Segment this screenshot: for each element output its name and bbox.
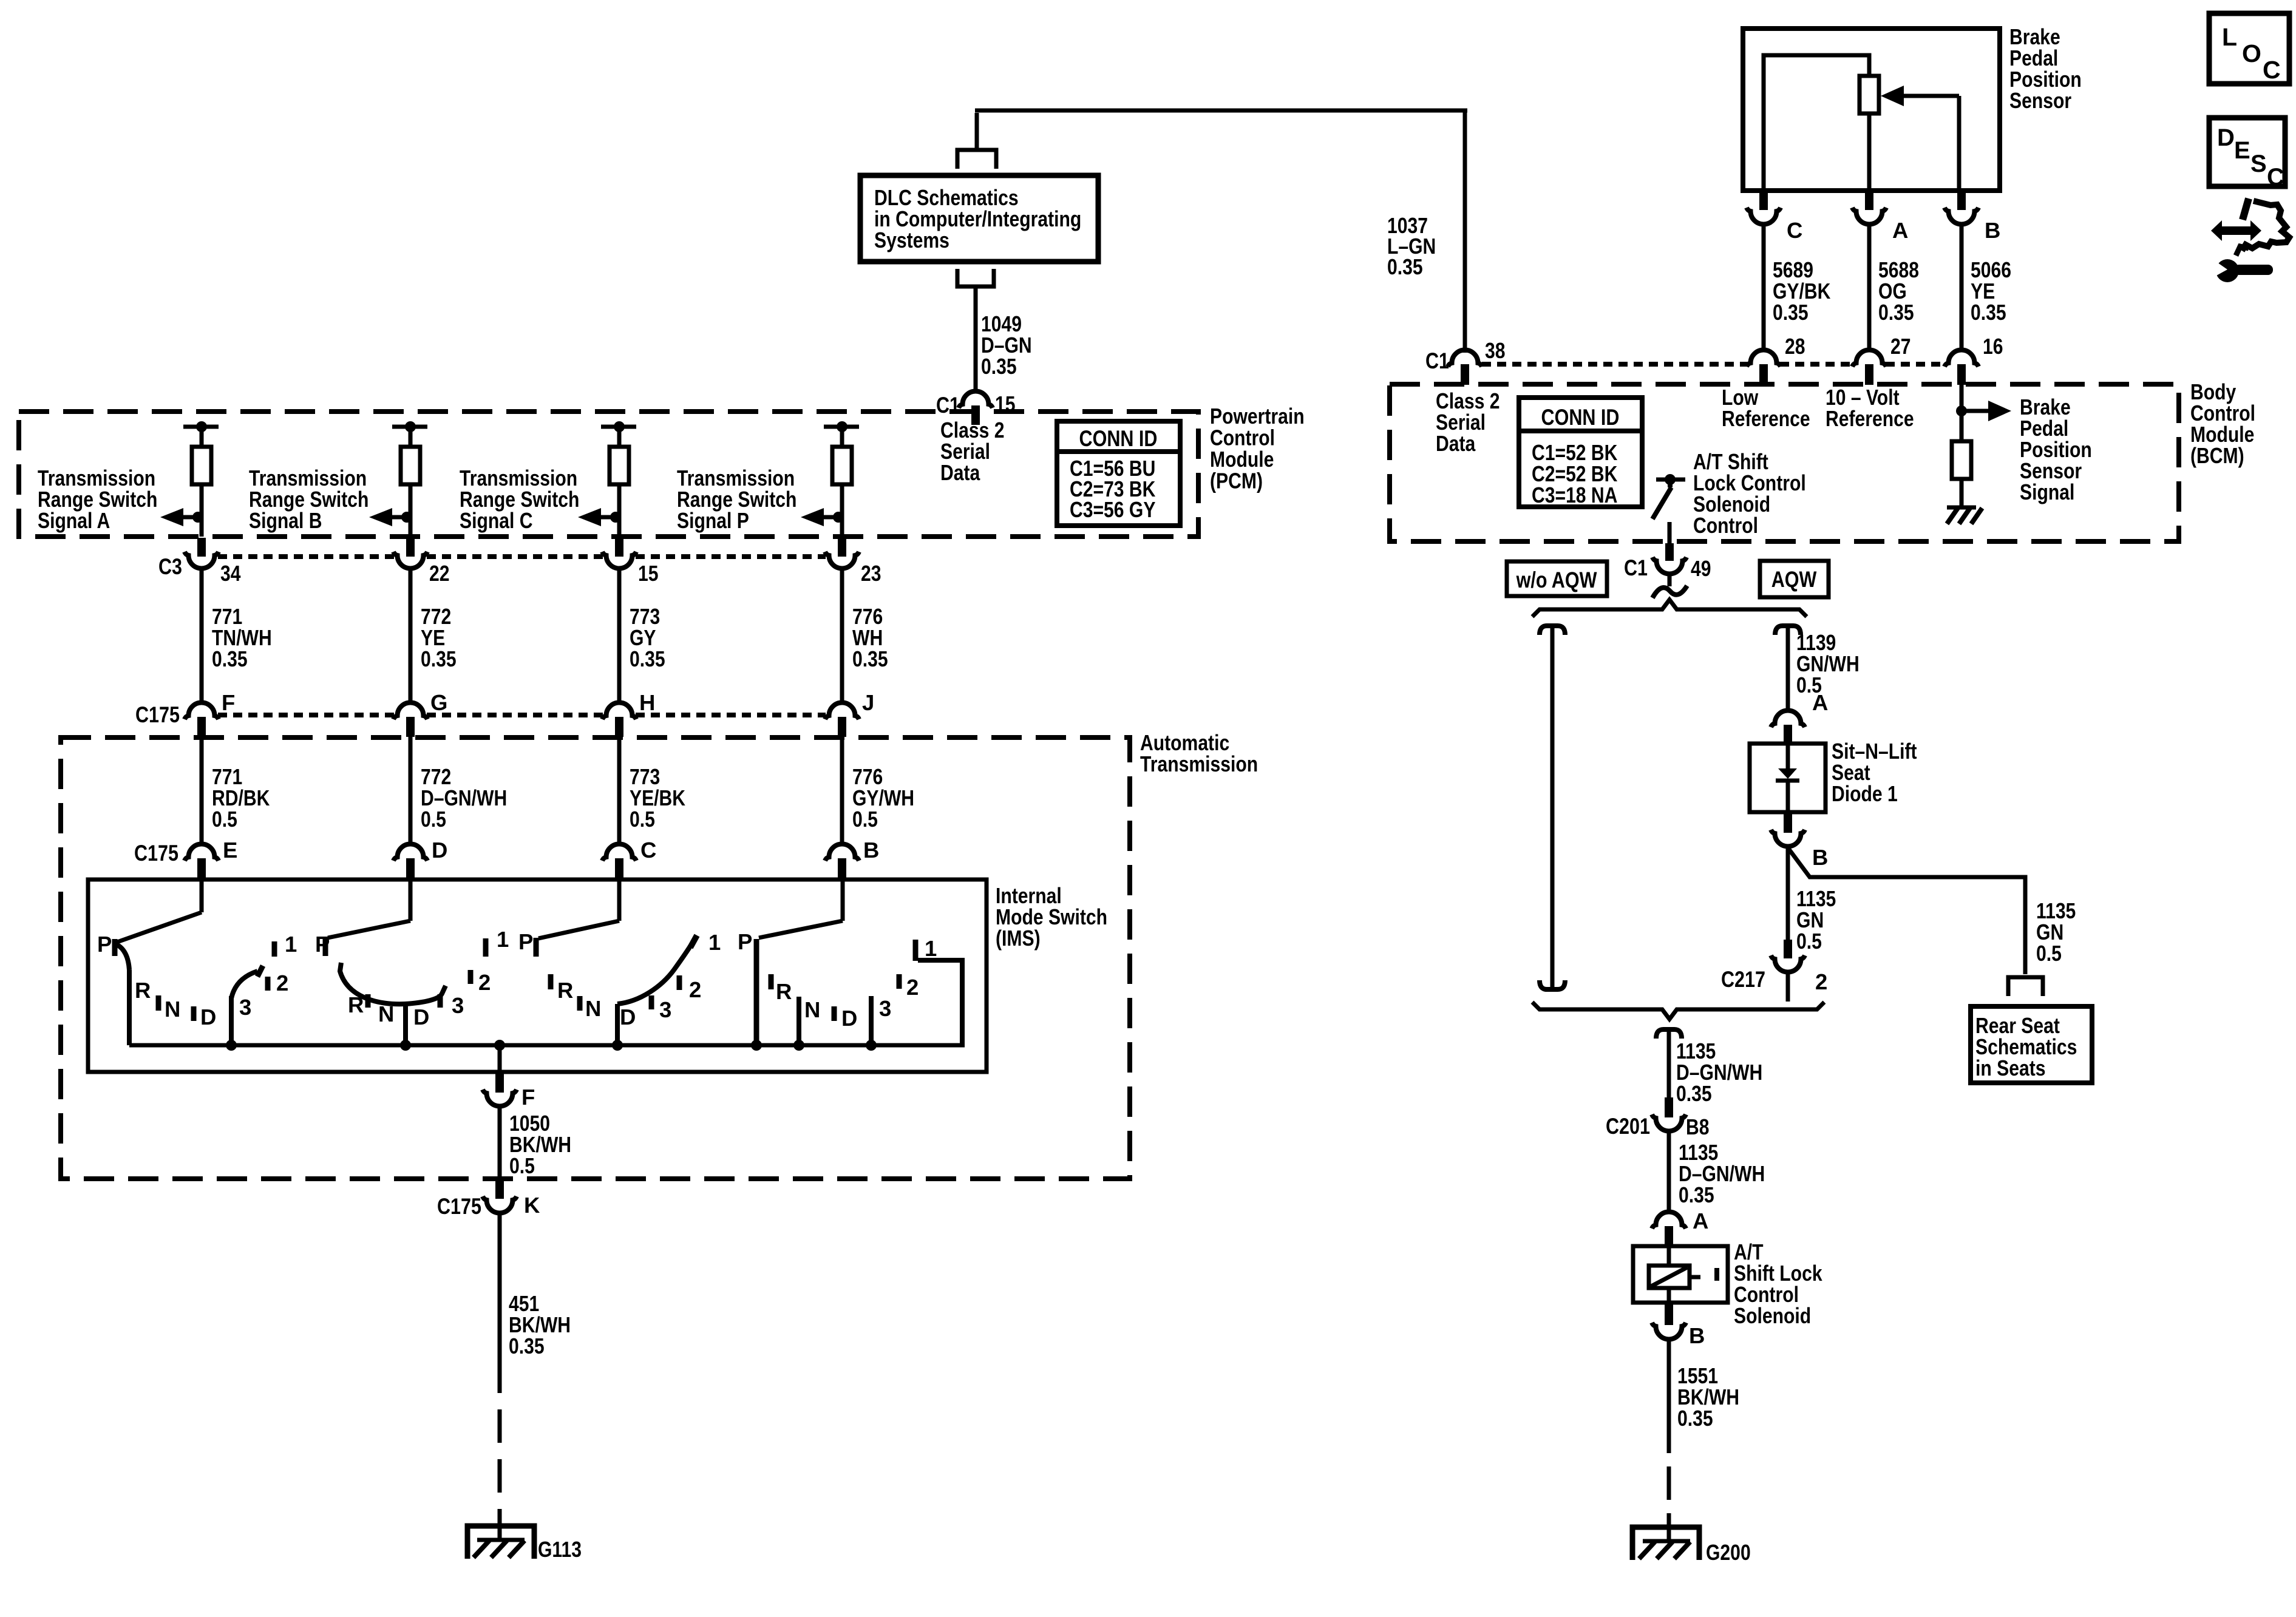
connector BCM pin 28 <box>1747 350 1781 367</box>
signal arrow Transmission Range Switch Signal A <box>192 512 203 523</box>
resistor R-B (PCM internal pull-up) <box>401 447 420 484</box>
box CONN ID (PCM) <box>1057 421 1180 526</box>
svg-text:B: B <box>1689 1323 1705 1348</box>
connector C3 terminal wire B <box>406 538 415 557</box>
wire D into IMS gang2 <box>409 880 413 921</box>
box DLC Schematics reference <box>860 175 1098 262</box>
wire circuit below C175 pin F <box>200 737 204 845</box>
svg-text:N: N <box>378 1002 394 1026</box>
wire C resistor to signal tap <box>617 484 622 537</box>
connector BCM pin 16 <box>1944 350 1978 367</box>
wire BPP element low <box>1867 114 1872 191</box>
wire circuit 5688 to BCM <box>1867 224 1872 352</box>
contact 3 gang3 <box>649 995 654 1009</box>
connector C1 pin 38 (BCM) <box>1448 350 1482 367</box>
svg-text:0.35: 0.35 <box>1677 1406 1713 1431</box>
connector BCM pin 27 <box>1852 350 1886 367</box>
svg-text:F: F <box>222 690 235 715</box>
svg-text:38: 38 <box>1485 338 1506 363</box>
wire into solenoid <box>1667 1246 1671 1266</box>
connector C175 pin G <box>393 703 427 720</box>
svg-text:Signal: Signal <box>2020 480 2074 504</box>
ground G113 <box>467 1526 534 1559</box>
splice option squiggle <box>1652 586 1687 598</box>
wire A to resistor <box>200 427 204 447</box>
contact D gang1 <box>191 1006 197 1021</box>
svg-text:(PCM): (PCM) <box>1210 469 1263 493</box>
contact 2 gang3 <box>677 975 682 990</box>
svg-text:D: D <box>413 1005 429 1029</box>
contact 2 gang4 <box>897 974 902 989</box>
svg-text:Data: Data <box>940 460 980 485</box>
off-page bracket below DLC box <box>957 269 994 286</box>
wire resistor to internal ground <box>1960 479 1964 507</box>
svg-text:0.5: 0.5 <box>509 1153 535 1178</box>
connector C175 pin F <box>185 703 219 720</box>
svg-text:15: 15 <box>638 561 659 586</box>
wire circuit below C3 pin 15 <box>617 568 622 703</box>
wire A resistor to signal tap <box>200 484 204 537</box>
svg-text:A: A <box>1892 218 1908 243</box>
wire 1135 D-GN/WH lower <box>1667 1131 1671 1213</box>
svg-text:0.35: 0.35 <box>1679 1182 1714 1207</box>
ground G200 <box>1632 1527 1699 1560</box>
wire 1135 D-GN/WH upper <box>1667 1029 1671 1097</box>
connector C3 terminal wire P <box>838 538 846 557</box>
svg-text:P: P <box>97 932 112 957</box>
svg-text:Diode 1: Diode 1 <box>1832 781 1898 806</box>
svg-text:P: P <box>518 929 533 954</box>
svg-text:A: A <box>1693 1209 1708 1233</box>
wire 1050 BK/WH <box>498 1106 502 1180</box>
svg-text:15: 15 <box>995 392 1016 416</box>
svg-text:J: J <box>862 690 874 715</box>
wire circuit 5689 to BCM <box>1762 224 1766 352</box>
contact P gang2 <box>323 937 328 956</box>
svg-text:w/o AQW: w/o AQW <box>1516 568 1597 592</box>
svg-text:1: 1 <box>925 936 937 961</box>
connector C3 terminal wire C <box>615 538 623 557</box>
connector C201 pin B8 <box>1665 1097 1673 1117</box>
node: PCM pull-up tap wire C <box>614 421 625 432</box>
svg-text:in Seats: in Seats <box>1975 1056 2046 1080</box>
svg-text:23: 23 <box>861 561 881 586</box>
box Rear Seat Schematics in Seats <box>1971 1006 2092 1083</box>
svg-text:B: B <box>863 838 879 863</box>
wire P to resistor <box>840 427 844 447</box>
svg-text:27: 27 <box>1890 334 1911 359</box>
wire circuit 5066 to BCM <box>1960 224 1964 352</box>
wire B to resistor <box>409 427 413 447</box>
wire circuit below C175 pin J <box>840 737 844 845</box>
svg-text:Reference: Reference <box>1826 406 1914 431</box>
wire 451 BK/WH solid <box>498 1213 502 1360</box>
resistor R-P (PCM internal pull-up) <box>832 447 852 484</box>
svg-text:G: G <box>430 690 447 715</box>
svg-text:Transmission: Transmission <box>1140 751 1258 776</box>
wire B resistor to signal tap <box>409 484 413 537</box>
svg-text:16: 16 <box>1983 334 2003 359</box>
wire 451 BK/WH dashed to ground <box>498 1360 502 1393</box>
connector line BCM C1 (dotted) <box>1482 362 1747 367</box>
svg-text:G113: G113 <box>538 1537 582 1562</box>
svg-text:C175: C175 <box>134 841 178 866</box>
signal arrow Transmission Range Switch Signal C <box>610 512 621 523</box>
svg-text:C1: C1 <box>1624 555 1648 580</box>
svg-text:Control: Control <box>1693 513 1758 538</box>
connector C1 pin 15 (PCM) <box>959 392 993 408</box>
wire C into IMS gang3 <box>617 880 622 921</box>
wire diode to box bottom <box>1786 781 1790 812</box>
resistor R-C (PCM internal pull-up) <box>610 447 629 484</box>
svg-text:0.35: 0.35 <box>1676 1081 1712 1106</box>
wire coil to box bottom <box>1667 1288 1671 1303</box>
svg-text:3: 3 <box>659 997 671 1022</box>
svg-text:Signal B: Signal B <box>249 508 322 533</box>
contact R gang2 <box>365 994 371 1008</box>
diode D1 <box>1778 768 1797 779</box>
svg-text:2: 2 <box>1815 969 1827 994</box>
connector line C175 (dotted) <box>218 713 394 717</box>
connector C1 pin 49 <box>1665 543 1674 561</box>
connector BPP pin A <box>1865 191 1873 210</box>
contact 3 line to rail gang1 <box>229 996 234 1045</box>
svg-text:C: C <box>1787 218 1802 243</box>
svg-text:Systems: Systems <box>874 228 949 253</box>
wiper bowl gang2 R to 3 <box>340 963 446 1004</box>
svg-text:0.35: 0.35 <box>852 646 888 671</box>
svg-text:D: D <box>200 1005 216 1029</box>
module box: Automatic Transmission, dashed <box>61 737 1130 1179</box>
svg-text:1: 1 <box>285 932 297 957</box>
connector diode pin B <box>1784 812 1792 833</box>
connector BPP pin B <box>1957 191 1966 210</box>
contact 3 gang2 <box>438 994 443 1008</box>
solenoid coil tap <box>1690 1275 1700 1280</box>
contact N gang3 <box>577 996 583 1011</box>
svg-text:2: 2 <box>906 975 919 1000</box>
contact R gang4 <box>769 974 774 989</box>
svg-text:0.5: 0.5 <box>2036 941 2062 966</box>
node: PCM pull-up tap wire P <box>837 421 847 432</box>
svg-text:CONN ID: CONN ID <box>1079 426 1158 451</box>
ground BCM internal <box>1947 506 1976 510</box>
svg-text:(IMS): (IMS) <box>996 926 1041 951</box>
svg-text:0.35: 0.35 <box>212 646 248 671</box>
svg-text:28: 28 <box>1785 334 1805 359</box>
svg-text:22: 22 <box>429 561 450 586</box>
svg-text:3: 3 <box>452 993 464 1018</box>
svg-text:0.5: 0.5 <box>630 807 655 832</box>
contact 2 gang2 <box>468 970 474 984</box>
connector C3 terminal wire A <box>197 538 206 557</box>
svg-text:0.35: 0.35 <box>1878 300 1914 325</box>
contact 1 gang2 <box>483 938 489 957</box>
svg-text:C3: C3 <box>158 554 182 579</box>
connector C175 pin K <box>495 1180 504 1199</box>
contact 2 gang1 <box>265 977 271 991</box>
contact P line to rail gang4 <box>754 939 759 1045</box>
resistor R-A (PCM internal pull-up) <box>192 447 211 484</box>
svg-text:Sensor: Sensor <box>2009 88 2071 113</box>
module box: Powertrain Control Module (PCM), dashed <box>19 412 1198 537</box>
svg-text:CONN ID: CONN ID <box>1541 405 1620 430</box>
svg-text:C1: C1 <box>1425 348 1449 373</box>
svg-text:3: 3 <box>879 996 891 1021</box>
svg-text:0.35: 0.35 <box>981 354 1017 379</box>
svg-text:Signal C: Signal C <box>460 508 533 533</box>
wiper arm gang1 P to rail <box>117 944 129 970</box>
wiper arc gang3 D to 1 <box>617 940 694 1004</box>
solenoid coil <box>1649 1266 1690 1288</box>
wire circuit below C3 pin 23 <box>840 568 844 703</box>
svg-text:B: B <box>1985 218 2000 243</box>
svg-text:Signal A: Signal A <box>38 508 110 533</box>
contact N line to rail gang4 <box>796 997 801 1045</box>
wire rail tap to F <box>494 1040 505 1051</box>
svg-text:0.35: 0.35 <box>421 646 457 671</box>
contact 3 line to rail gang4 <box>869 996 874 1045</box>
potentiometer wiper arrow <box>1881 86 1904 106</box>
module box: Body Control Module (BCM), dashed <box>1390 384 2179 541</box>
svg-text:E: E <box>223 838 237 863</box>
svg-text:Reference: Reference <box>1722 406 1810 431</box>
svg-text:R: R <box>557 978 573 1003</box>
contact D line to rail gang3 <box>615 1004 620 1045</box>
wire circuit below C175 pin H <box>617 737 622 845</box>
svg-text:0.35: 0.35 <box>1971 300 2006 325</box>
wire branch w/o AQW top cap <box>1540 626 1565 635</box>
svg-text:AQW: AQW <box>1771 567 1817 592</box>
svg-text:Data: Data <box>1436 431 1476 456</box>
svg-text:C: C <box>2263 56 2281 84</box>
connector diode pin A <box>1771 711 1805 728</box>
svg-text:2: 2 <box>478 970 491 995</box>
svg-text:D: D <box>841 1006 857 1031</box>
wire pin16 to BPP signal node <box>1960 385 1964 441</box>
svg-text:2: 2 <box>689 977 701 1002</box>
wire branch AQW <box>1786 626 1790 711</box>
signal arrow Transmission Range Switch Signal P <box>833 512 844 523</box>
node: PCM pull-up tap wire A <box>196 421 207 432</box>
svg-text:P: P <box>315 932 330 957</box>
wire into diode <box>1786 744 1790 770</box>
svg-text:C217: C217 <box>1721 967 1765 992</box>
legend box LOC <box>2209 13 2289 84</box>
svg-text:C3=18 NA: C3=18 NA <box>1532 483 1617 507</box>
svg-text:H: H <box>639 690 655 715</box>
wire branch AQW top cap <box>1775 626 1801 635</box>
contact P gang3 <box>534 938 539 957</box>
connector IMS pin F <box>495 1073 504 1093</box>
wire circuit below C3 pin 22 <box>409 568 413 703</box>
wire branch to rear seat <box>1788 849 2025 974</box>
signal arrow Transmission Range Switch Signal B <box>401 512 412 523</box>
contact 1 gang4 <box>913 940 919 961</box>
contact D gang4 <box>832 1006 837 1021</box>
wire C217 to lower brace <box>1786 972 1790 1002</box>
off-page bracket above DLC box <box>957 150 996 169</box>
svg-text:0.35: 0.35 <box>1387 254 1423 279</box>
box AQW <box>1760 561 1829 597</box>
svg-text:N: N <box>804 997 820 1022</box>
svg-text:0.35: 0.35 <box>509 1334 545 1358</box>
wire 1551 BK/WH dashed to ground <box>1667 1466 1671 1500</box>
svg-text:N: N <box>585 996 601 1021</box>
svg-text:C175: C175 <box>135 702 180 727</box>
svg-text:P: P <box>738 929 752 954</box>
svg-text:C175: C175 <box>437 1194 481 1219</box>
svg-text:O: O <box>2242 39 2261 67</box>
connector C217 pin 2 <box>1784 940 1792 958</box>
box A/T Shift Lock Control Solenoid <box>1633 1246 1728 1303</box>
svg-text:34: 34 <box>220 561 241 586</box>
svg-text:G200: G200 <box>1706 1540 1751 1565</box>
connector line C3 (dotted) <box>218 554 394 559</box>
svg-text:3: 3 <box>239 995 251 1020</box>
wire 1551 BK/WH solid <box>1667 1339 1671 1453</box>
svg-text:0.5: 0.5 <box>421 807 446 832</box>
svg-text:E: E <box>2234 137 2250 164</box>
svg-text:D: D <box>620 1005 636 1029</box>
contact R gang3 <box>548 974 554 989</box>
connector C175 pin C <box>602 844 636 861</box>
wire E into IMS gang1 <box>200 880 204 912</box>
connector BPP pin C <box>1759 191 1768 210</box>
module box: Brake Pedal Position Sensor <box>1743 29 2000 191</box>
contact P gang1 <box>112 939 118 956</box>
node: PCM pull-up tap wire B <box>405 421 416 432</box>
signal arrow Brake Pedal Position Sensor Signal <box>1961 409 1995 413</box>
svg-text:K: K <box>524 1193 540 1218</box>
svg-text:C: C <box>2267 164 2284 191</box>
connector solenoid pin A <box>1652 1212 1686 1229</box>
contact 1 gang1 <box>272 941 277 957</box>
wire IMS common rail <box>129 1043 965 1048</box>
wire P resistor to signal tap <box>840 484 844 537</box>
svg-text:C: C <box>640 838 656 863</box>
connector C175 pin H <box>602 703 636 720</box>
wire B into IMS gang4 <box>841 880 845 921</box>
svg-text:R: R <box>135 978 151 1003</box>
module box: Internal Mode Switch (IMS) <box>88 880 987 1072</box>
box CONN ID (BCM) <box>1519 398 1642 507</box>
wire branch w/o AQW <box>1550 626 1555 989</box>
svg-text:D: D <box>2217 124 2235 151</box>
wire 1049 D-GN from DLC bracket <box>974 286 978 392</box>
wire merge cap below brace <box>1656 1029 1682 1039</box>
svg-text:0.5: 0.5 <box>852 807 878 832</box>
wire class 2 drop to BCM C1-38 <box>1463 110 1467 353</box>
wire circuit below C175 pin G <box>409 737 413 845</box>
svg-text:1: 1 <box>497 927 509 952</box>
legend icon replace/repair <box>2211 220 2261 241</box>
connector C175 pin E <box>185 844 219 861</box>
wire BPP low side <box>1764 55 1869 191</box>
off-page bracket rear seat <box>2008 977 2043 996</box>
svg-text:C201: C201 <box>1606 1114 1650 1139</box>
svg-text:A: A <box>1812 690 1828 715</box>
wire contact1 to rail gang4 (L path) <box>918 960 962 1045</box>
svg-text:0.35: 0.35 <box>1773 300 1809 325</box>
wire below diode B <box>1786 846 1790 940</box>
svg-text:0.5: 0.5 <box>1796 929 1822 954</box>
svg-text:1: 1 <box>708 930 721 955</box>
wire below C1-49 <box>1668 574 1672 586</box>
wire class 2 serial data horizontal run <box>975 109 1467 113</box>
svg-text:B8: B8 <box>1686 1114 1710 1139</box>
svg-text:R: R <box>776 979 792 1004</box>
option brace upper <box>1532 600 1807 617</box>
contact N gang1 <box>156 995 161 1011</box>
svg-text:L: L <box>2222 23 2237 51</box>
svg-text:(BCM): (BCM) <box>2190 443 2244 468</box>
svg-text:Signal P: Signal P <box>677 508 749 533</box>
svg-text:F: F <box>521 1085 535 1110</box>
svg-text:S: S <box>2250 151 2267 177</box>
svg-text:C1: C1 <box>936 393 960 418</box>
switch A/T Shift Lock Control Solenoid Control (BCM driver) <box>1665 474 1676 485</box>
potentiometer BPP element <box>1860 76 1879 114</box>
resistor BCM pulldown <box>1952 441 1971 479</box>
box Sit-N-Lift Seat Diode 1 <box>1750 744 1826 812</box>
connector C175 pin B <box>825 844 859 861</box>
connector solenoid pin B <box>1665 1303 1673 1325</box>
wire C to resistor <box>617 427 622 447</box>
contact D line to rail gang2 <box>403 1004 408 1045</box>
svg-text:B: B <box>1812 845 1828 870</box>
connector C175 pin J <box>825 703 859 720</box>
wire solenoid control to C1-49 <box>1668 522 1672 544</box>
wiper hook gang1 toward 2 <box>231 971 257 998</box>
svg-text:N: N <box>165 997 180 1022</box>
box w/o AQW <box>1507 561 1607 596</box>
svg-text:0.5: 0.5 <box>212 807 237 832</box>
connector C175 pin D <box>393 844 427 861</box>
legend box DESC <box>2209 118 2285 186</box>
svg-text:2: 2 <box>276 971 288 995</box>
wire class 2 serial data riser <box>975 113 979 150</box>
svg-text:Solenoid: Solenoid <box>1734 1303 1811 1328</box>
svg-text:D: D <box>432 838 447 863</box>
wire branch w/o AQW bottom cap <box>1540 980 1565 989</box>
svg-text:49: 49 <box>1691 556 1711 581</box>
option brace lower <box>1532 1002 1824 1019</box>
svg-text:C3=56 GY: C3=56 GY <box>1070 497 1155 522</box>
wire circuit below C3 pin 34 <box>200 568 204 703</box>
svg-text:0.35: 0.35 <box>630 646 665 671</box>
node BPP signal branch <box>1956 405 1967 416</box>
